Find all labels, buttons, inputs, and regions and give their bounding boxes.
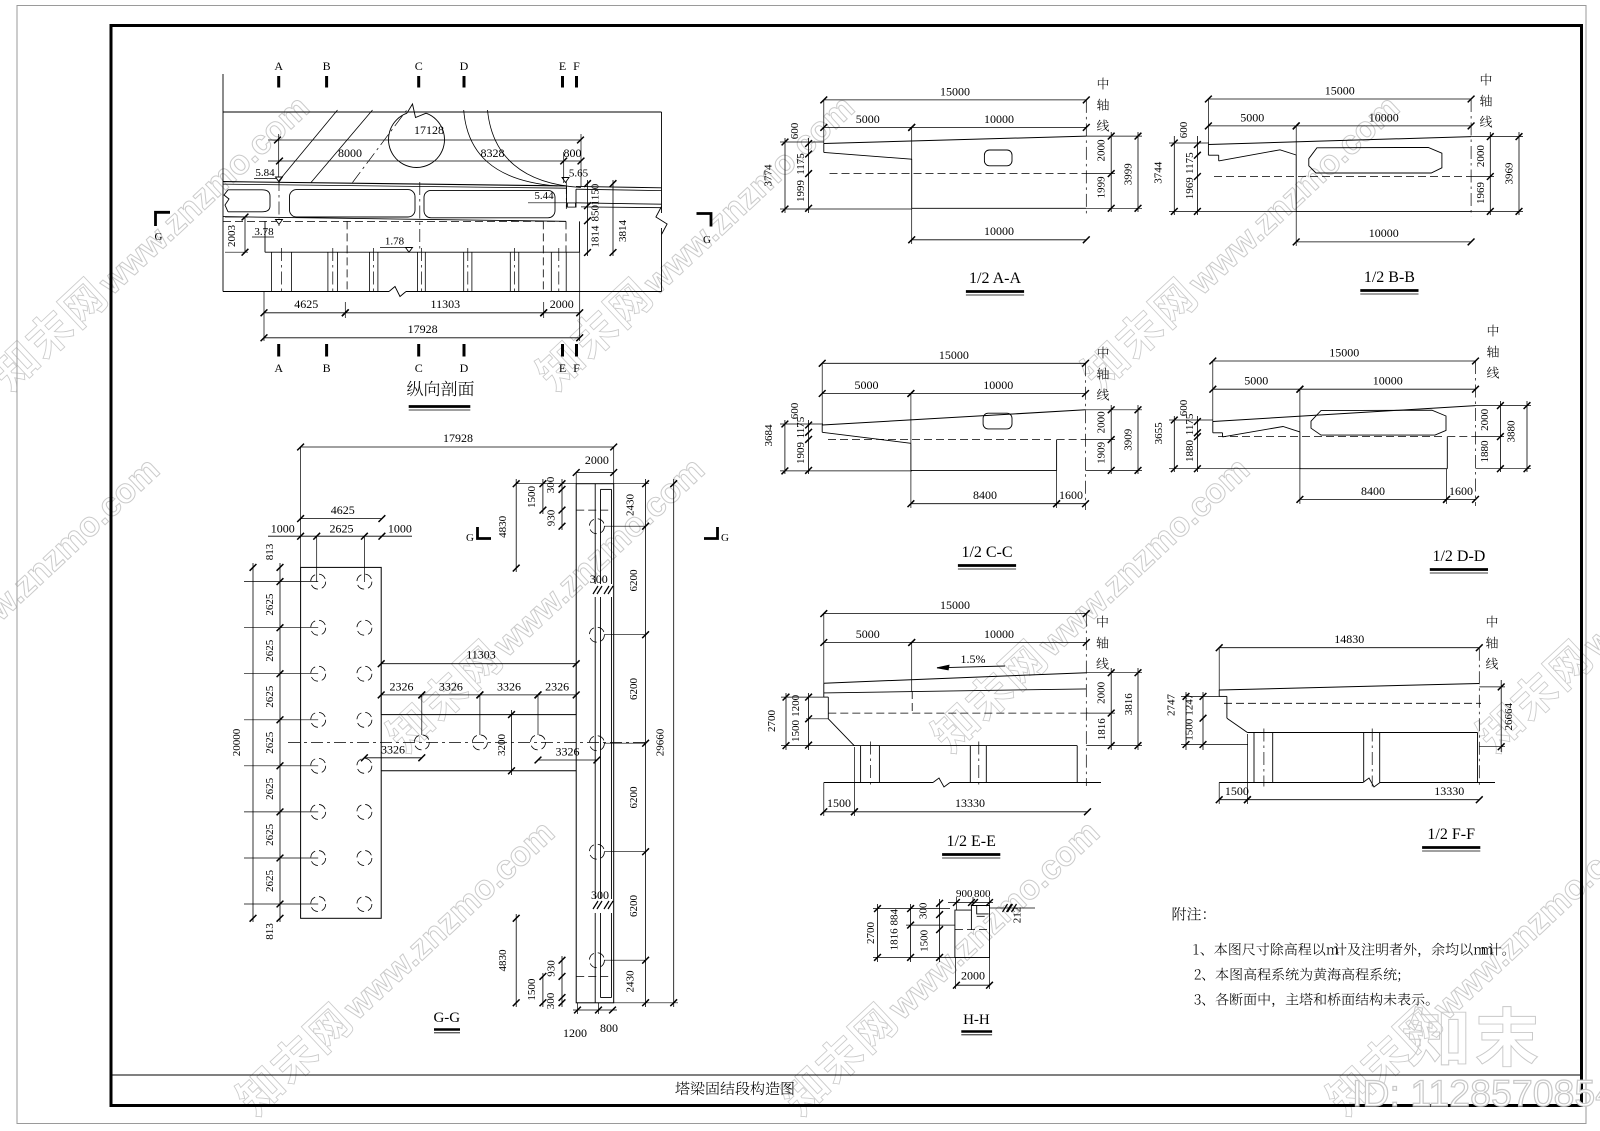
svg-text:1500: 1500	[827, 796, 851, 810]
girder end step at E-F	[566, 186, 568, 208]
box girder cell middle	[290, 190, 416, 217]
title bar line	[111, 1074, 1582, 1076]
svg-text:813: 813	[264, 543, 276, 560]
E-E mid dashed line	[828, 712, 1088, 714]
svg-text:2000: 2000	[961, 969, 985, 983]
svg-text:2000: 2000	[585, 453, 609, 467]
svg-text:2747: 2747	[1166, 694, 1178, 717]
E-E web dashed	[911, 691, 913, 713]
E-E right dim 3816	[1137, 668, 1139, 750]
svg-text:11303: 11303	[431, 297, 461, 311]
svg-text:2625: 2625	[264, 731, 276, 754]
C-C web and bottom	[910, 443, 912, 470]
svg-text:4625: 4625	[294, 297, 318, 311]
bottom dim 17928	[264, 337, 580, 339]
B-B void octagon	[1309, 147, 1442, 173]
F-F right dim 26664	[1500, 680, 1502, 752]
F-F cap right edge	[1477, 733, 1479, 783]
svg-text:600: 600	[1178, 121, 1190, 138]
D-D mid dashed	[1218, 436, 1442, 438]
bottom dim row 4625/11303/2000	[263, 292, 265, 342]
svg-text:1000: 1000	[271, 522, 295, 536]
C-C left edge and underside	[821, 425, 823, 432]
C-C right step	[1056, 440, 1058, 471]
tower inner dashed lines	[576, 509, 611, 511]
svg-text:2700: 2700	[865, 922, 877, 945]
note 1	[1194, 944, 1199, 954]
center axis line	[1475, 361, 1477, 506]
axis label 中轴线	[1481, 74, 1492, 86]
left pile circles	[244, 581, 318, 583]
svg-text:B: B	[323, 59, 331, 73]
B-B right dims 2000/1969	[1489, 132, 1491, 215]
F-F bottom dims 1500/13330	[1219, 799, 1247, 801]
svg-text:8328: 8328	[481, 146, 505, 160]
svg-text:10000: 10000	[1369, 226, 1399, 240]
svg-text:ID: 1128570854: ID: 1128570854	[1352, 1072, 1600, 1114]
svg-text:1/2 D-D: 1/2 D-D	[1432, 548, 1485, 565]
F-F deck top	[1219, 684, 1479, 691]
right vertical dim chain 1150/850/1814	[587, 180, 589, 256]
top dim 15000	[1208, 98, 1471, 100]
svg-text:1175: 1175	[1184, 413, 1196, 435]
svg-text:C: C	[415, 59, 423, 73]
curved guide lines	[464, 110, 558, 186]
dim 5000/10000	[824, 642, 912, 644]
svg-text:3999: 3999	[1123, 163, 1135, 186]
svg-text:300: 300	[590, 572, 608, 586]
svg-text:3326: 3326	[497, 679, 521, 693]
svg-text:F: F	[573, 59, 580, 73]
znzmo logo watermark	[1408, 1007, 1466, 1067]
C-C left inner dims 600/1175/1909	[808, 420, 810, 474]
svg-text:F: F	[573, 361, 580, 375]
svg-text:15000: 15000	[1325, 84, 1355, 98]
svg-text:G: G	[721, 532, 729, 544]
svg-text:1999: 1999	[1096, 176, 1108, 199]
tower column divider wall	[594, 484, 596, 584]
svg-text:300: 300	[591, 888, 609, 902]
notes title 附注	[1173, 907, 1186, 921]
plan dim 4830 bottom	[515, 914, 517, 1007]
dim 5000/10000	[822, 393, 911, 395]
svg-text:3200: 3200	[496, 734, 508, 757]
F-F left outer dim 2747	[1185, 692, 1187, 750]
svg-text:4625: 4625	[331, 503, 355, 517]
svg-text:1969: 1969	[1184, 177, 1196, 200]
svg-text:3909: 3909	[1123, 428, 1135, 451]
A-A right dims 2000/1999	[1110, 132, 1112, 212]
svg-text:10000: 10000	[983, 378, 1013, 392]
pier cap	[264, 221, 266, 252]
E-E left outer dim 2700	[785, 693, 787, 750]
B-B web and bottom	[1295, 155, 1297, 211]
svg-text:2625: 2625	[264, 870, 276, 893]
svg-text:D: D	[460, 59, 469, 73]
svg-text:1.5%: 1.5%	[961, 652, 986, 666]
svg-text:2000: 2000	[1096, 139, 1108, 162]
svg-text:300: 300	[918, 902, 930, 919]
right approach deck lines	[576, 186, 662, 187]
svg-text:2000: 2000	[1479, 408, 1491, 431]
svg-text:1600: 1600	[1449, 484, 1473, 498]
axis label 中轴线	[1487, 616, 1498, 628]
svg-text:10000: 10000	[1373, 374, 1403, 388]
svg-text:3744: 3744	[1153, 161, 1165, 184]
D-D left outer dim 3655	[1173, 416, 1175, 472]
svg-text:H-H: H-H	[963, 1012, 990, 1028]
dim 5000/10000	[1213, 388, 1300, 390]
center axis line	[1478, 648, 1480, 786]
svg-text:1.78: 1.78	[385, 236, 405, 248]
svg-text:1500: 1500	[790, 720, 802, 743]
svg-text:6200: 6200	[628, 569, 640, 592]
box girder cell left partial	[228, 190, 270, 212]
deck surface double line	[223, 182, 567, 186]
plan dim 2326/3326/3326/2326	[381, 694, 422, 696]
left pile cap rectangle	[301, 567, 382, 918]
svg-text:930: 930	[546, 509, 558, 526]
svg-text:1600: 1600	[1059, 488, 1083, 502]
upper dim reference lines 8000/8328/800	[268, 139, 581, 141]
note 3	[1194, 994, 1200, 1005]
svg-text:1/2 A-A: 1/2 A-A	[969, 270, 1021, 287]
plan centerline dashed	[288, 741, 648, 743]
G marker right	[697, 214, 712, 227]
longitudinal section - boundary lines	[222, 74, 224, 292]
B-B deck top	[1208, 137, 1471, 145]
svg-text:1175: 1175	[1184, 152, 1196, 174]
plan dim 4625	[301, 518, 382, 520]
plan left dim 20000	[252, 563, 254, 922]
svg-text:11303: 11303	[466, 648, 496, 662]
G marker left	[156, 212, 171, 226]
top dim 14830	[1219, 647, 1479, 649]
C-C mid dashed	[828, 438, 1051, 440]
svg-text:6200: 6200	[628, 786, 640, 809]
svg-text:17128: 17128	[414, 123, 444, 137]
svg-text:1175: 1175	[795, 416, 807, 438]
D-D right dim 3880	[1526, 401, 1528, 472]
section markers bottom	[277, 344, 280, 357]
svg-text:3814: 3814	[617, 220, 629, 243]
E-E deck slab	[824, 673, 1087, 684]
svg-text:2625: 2625	[264, 823, 276, 846]
C-C manhole	[983, 413, 1012, 429]
diagonal reference lines	[279, 110, 338, 181]
svg-text:A: A	[274, 361, 283, 375]
inner wall break marks	[593, 586, 598, 594]
plan dim 11303	[381, 663, 576, 665]
svg-text:15000: 15000	[939, 348, 969, 362]
D-D bottom dims 8400/1600	[1300, 498, 1447, 500]
svg-text:5000: 5000	[856, 627, 880, 641]
web centerline C	[419, 182, 421, 252]
svg-text:5.65: 5.65	[569, 168, 589, 180]
svg-text:600: 600	[789, 122, 801, 139]
H-H left outer dim 2700	[877, 904, 879, 962]
svg-text:2625: 2625	[264, 593, 276, 616]
svg-text:8400: 8400	[1361, 484, 1385, 498]
svg-text:1909: 1909	[1096, 441, 1108, 464]
H-H recess tab	[977, 906, 989, 914]
E-E bottom dims 1500/13330	[824, 811, 855, 813]
svg-text:1999: 1999	[795, 180, 807, 203]
svg-text:1247: 1247	[1183, 693, 1195, 716]
svg-text:4830: 4830	[497, 515, 509, 538]
center axis line	[1470, 99, 1472, 217]
svg-text:G-G: G-G	[433, 1010, 460, 1026]
crossbar	[381, 714, 576, 716]
H-H outline	[955, 906, 990, 958]
plan bottom dims 1200/800	[573, 1009, 617, 1011]
svg-text:5.84: 5.84	[255, 167, 275, 179]
pier pedestals	[271, 252, 273, 291]
svg-text:1909: 1909	[795, 442, 807, 465]
E-E cap top	[854, 745, 1077, 747]
girder bottom line	[223, 217, 566, 222]
svg-text:20000: 20000	[231, 728, 243, 756]
svg-text:3774: 3774	[763, 164, 775, 187]
svg-text:17928: 17928	[408, 322, 438, 336]
svg-text:1/2 F-F: 1/2 F-F	[1427, 826, 1475, 843]
svg-text:B: B	[323, 361, 331, 375]
E-E cap right edge	[1076, 746, 1078, 783]
svg-text:26664: 26664	[1503, 703, 1515, 731]
A-A bottom dim 10000	[912, 239, 1087, 241]
svg-text:17928: 17928	[443, 431, 473, 445]
longitudinal section title	[407, 381, 423, 397]
svg-text:1500: 1500	[919, 929, 931, 952]
svg-text:5000: 5000	[856, 112, 880, 126]
svg-text:2000: 2000	[1096, 411, 1108, 434]
web centerline A	[278, 178, 280, 226]
svg-text:1000: 1000	[388, 522, 412, 536]
svg-text:1500: 1500	[1183, 718, 1195, 741]
plan dim 2625/1000	[268, 535, 412, 537]
B-B underside	[1219, 150, 1297, 161]
D-D deck top	[1213, 406, 1476, 422]
A-A left edge and underside	[823, 144, 825, 153]
A-A left inner dims 600/1175/1999	[808, 138, 810, 213]
plan left dim chain 813/2625	[279, 563, 281, 922]
center axis line	[1085, 363, 1087, 510]
A-A mid dashed line	[830, 173, 1087, 175]
svg-text:6200: 6200	[628, 895, 640, 918]
C-C left outer dim 3684	[784, 420, 786, 474]
dim 2003 left	[244, 217, 246, 252]
svg-text:1500: 1500	[526, 486, 538, 509]
H-H inner vertical	[970, 910, 972, 930]
svg-text:10000: 10000	[984, 627, 1014, 641]
plan right dim chain 2430/6200s	[645, 479, 647, 1007]
svg-text:C: C	[415, 361, 423, 375]
A-A manhole	[984, 150, 1012, 166]
plan small dims top 1500/300/930	[542, 479, 544, 514]
plan G marker left	[478, 527, 492, 539]
svg-text:5000: 5000	[1240, 110, 1264, 124]
plan dim 3200	[511, 710, 513, 775]
note 2	[1195, 969, 1201, 979]
box girder cell right	[424, 190, 555, 217]
E-E columns	[860, 746, 862, 783]
svg-text:2625: 2625	[264, 777, 276, 800]
axis label 中轴线	[1097, 616, 1108, 628]
D-D right dims 2000/1880	[1499, 401, 1501, 472]
svg-text:1500: 1500	[526, 978, 538, 1001]
svg-text:10000: 10000	[984, 224, 1014, 238]
svg-text:E: E	[559, 59, 566, 73]
svg-text:800: 800	[974, 888, 991, 900]
svg-text:2625: 2625	[264, 685, 276, 708]
svg-text:1/2 B-B: 1/2 B-B	[1364, 269, 1415, 286]
H-H dims 884/1816	[910, 904, 912, 962]
svg-text:3326: 3326	[381, 742, 405, 756]
svg-text:813: 813	[264, 923, 276, 940]
plan small dims bottom 1500/300/930	[542, 973, 544, 1007]
svg-text:2000: 2000	[1096, 681, 1108, 704]
svg-text:2625: 2625	[264, 639, 276, 662]
C-C right dim 3909	[1137, 405, 1139, 474]
svg-text:1/2 C-C: 1/2 C-C	[961, 544, 1012, 561]
svg-text:212: 212	[1012, 907, 1024, 924]
C-C bottom dims 8400/1600	[911, 503, 1057, 505]
svg-text:2700: 2700	[766, 710, 778, 733]
svg-text:600: 600	[789, 402, 801, 419]
svg-text:15000: 15000	[940, 84, 970, 98]
C-C right dims 2000/1909	[1110, 405, 1112, 474]
svg-text:A: A	[274, 59, 283, 73]
D-D web and bottom	[1299, 432, 1301, 469]
top dim 15000	[824, 99, 1087, 101]
plan dim 4830 top	[515, 479, 517, 572]
svg-text:900: 900	[956, 888, 973, 900]
plan G marker right	[704, 527, 718, 539]
F-F ground line	[1219, 782, 1363, 784]
svg-text:2430: 2430	[625, 494, 637, 517]
svg-text:800: 800	[600, 1021, 618, 1035]
right column circles and leaders	[589, 519, 604, 534]
svg-text:2625: 2625	[330, 522, 354, 536]
H-H dims 300/1500	[939, 899, 941, 962]
svg-text:1816: 1816	[888, 928, 900, 951]
svg-text:29660: 29660	[654, 728, 666, 756]
F-F left notch	[1218, 690, 1220, 696]
D-D void octagon	[1311, 410, 1446, 435]
E-E left inner dims 1200/1500	[808, 693, 810, 750]
E-E left pedestal	[824, 696, 829, 698]
dim 5000/10000	[824, 126, 912, 128]
svg-text:G: G	[703, 234, 711, 246]
plan small dims 3326 at centerline	[364, 757, 421, 759]
svg-text:5.44: 5.44	[534, 190, 554, 202]
svg-text:1200: 1200	[790, 694, 802, 717]
svg-text:1175: 1175	[795, 153, 807, 175]
svg-text:1880: 1880	[1479, 440, 1491, 463]
D-D right step	[1446, 437, 1448, 469]
axis label 中轴线	[1098, 347, 1109, 359]
F-F cap top	[1247, 732, 1477, 734]
plan G-G top dim 17928	[301, 446, 614, 448]
svg-text:2003: 2003	[226, 225, 238, 248]
svg-text:4830: 4830	[497, 949, 509, 972]
svg-text:850: 850	[590, 204, 602, 221]
H-H top dims 900/800	[948, 902, 993, 904]
svg-text:5000: 5000	[855, 378, 879, 392]
E-E right dims 2000/1816	[1110, 668, 1112, 750]
A-A web and bottom	[911, 159, 913, 208]
A-A deck top	[824, 136, 1087, 143]
B-B left notch	[1207, 145, 1209, 156]
svg-text:2000: 2000	[550, 297, 574, 311]
svg-text:3816: 3816	[1123, 693, 1135, 716]
A-A right dim 3999	[1137, 132, 1139, 212]
svg-text:D: D	[460, 361, 469, 375]
F-F mid dashed	[1224, 702, 1481, 704]
balloon circle 17128	[389, 113, 445, 167]
svg-text:6200: 6200	[628, 678, 640, 701]
E-E ground line	[824, 782, 933, 784]
svg-text:14830: 14830	[1334, 632, 1364, 646]
right dim 3814	[612, 180, 614, 256]
svg-text:3684: 3684	[763, 424, 775, 447]
svg-text:2326: 2326	[390, 679, 414, 693]
svg-text:5000: 5000	[1244, 374, 1268, 388]
svg-text:300: 300	[545, 476, 557, 493]
F-F columns	[1253, 733, 1255, 783]
center axis line	[1085, 614, 1087, 786]
B-B mid dashed	[1214, 176, 1471, 178]
axis label 中轴线	[1098, 78, 1109, 90]
center axis line	[1085, 100, 1087, 216]
svg-text:1880: 1880	[1184, 440, 1196, 463]
F-F left inner dims 1247/1500	[1202, 692, 1204, 750]
svg-text:8000: 8000	[338, 146, 362, 160]
svg-text:930: 930	[546, 960, 558, 977]
A-A left outer dim 3774	[784, 138, 786, 213]
svg-text:2000: 2000	[1475, 145, 1487, 168]
svg-text:884: 884	[888, 908, 900, 925]
D-D underside	[1223, 427, 1300, 437]
svg-text:1969: 1969	[1475, 182, 1487, 205]
svg-text:3326: 3326	[439, 679, 463, 693]
svg-text:1200: 1200	[563, 1026, 587, 1040]
ground line	[223, 291, 389, 293]
svg-text:3969: 3969	[1504, 162, 1516, 185]
B-B left outer dim 3744	[1173, 136, 1175, 215]
tower column inner box	[600, 489, 602, 584]
svg-text:3655: 3655	[1153, 422, 1165, 445]
axis label 中轴线	[1488, 325, 1499, 337]
svg-text:10000: 10000	[1369, 110, 1399, 124]
svg-text:1/2 E-E: 1/2 E-E	[947, 833, 996, 850]
svg-text:1816: 1816	[1096, 718, 1108, 741]
right tower column rectangle	[576, 484, 614, 1003]
svg-text:300: 300	[545, 992, 557, 1009]
svg-text:2430: 2430	[625, 970, 637, 993]
D-D left inner dims 600/1175/1880	[1196, 416, 1198, 472]
svg-text:15000: 15000	[940, 598, 970, 612]
svg-text:1500: 1500	[1225, 784, 1249, 798]
svg-text:13330: 13330	[1434, 784, 1464, 798]
H-H dim 212	[990, 907, 1036, 909]
svg-text:10000: 10000	[984, 112, 1014, 126]
D-D left notch	[1212, 422, 1214, 433]
H-H dashed hidden line	[955, 929, 990, 931]
svg-text:13330: 13330	[955, 796, 985, 810]
pier cap top dashed	[223, 220, 566, 222]
svg-text:1150: 1150	[590, 183, 602, 205]
